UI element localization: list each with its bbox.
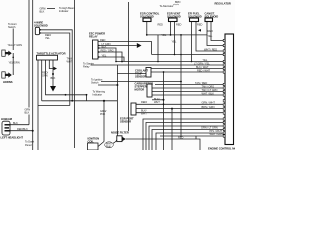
wire nest5 — [156, 133, 225, 150]
junction dot at 181,81.5 — [180, 81, 182, 83]
svg-text:TAN / RED: TAN / RED — [195, 81, 207, 85]
svg-text:SOLENOID: SOLENOID — [188, 15, 202, 19]
wire vert 117 — [116, 65, 118, 136]
svg-text:SOLENOID: SOLENOID — [34, 24, 48, 28]
arrow wire right relay row — [137, 43, 142, 48]
wire relay row yel — [98, 57, 124, 62]
svg-text:HI BEAM: HI BEAM — [1, 117, 13, 121]
svg-text:TAN / ORG: TAN / ORG — [202, 85, 215, 89]
junction dot at 32.7,130.7 — [32, 130, 34, 132]
svg-text:WHT / RED: WHT / RED — [204, 47, 217, 51]
svg-text:YEL/GRN: YEL/GRN — [9, 61, 20, 65]
EGR port sensor box — [131, 103, 136, 115]
wire relay row red — [98, 42, 152, 55]
junction dot at 174.5,54.5 — [174, 54, 176, 56]
svg-text:YEL: YEL — [172, 40, 177, 44]
ground arrow actuator — [50, 86, 56, 92]
svg-text:YEL: YEL — [203, 58, 208, 62]
svg-text:SENSOR: SENSOR — [120, 120, 131, 124]
junction dot at 86.5,94.8 — [86, 94, 88, 96]
wire horn switch vertical — [12, 29, 14, 51]
svg-text:WHT / GRN: WHT / GRN — [210, 132, 224, 136]
svg-text:BLK: BLK — [102, 45, 107, 49]
svg-text:YEL/LT GRN: YEL/LT GRN — [8, 43, 23, 47]
svg-text:YEL: YEL — [102, 54, 107, 58]
wire relay row redorg — [98, 52, 122, 62]
wire actuator pin2 to warning row — [41, 60, 43, 101]
junction dot at 13.2,57.3 — [12, 57, 14, 59]
svg-text:BRN / GRN: BRN / GRN — [202, 105, 215, 109]
ECM pins — [223, 39, 225, 137]
wire blkwht stepper stub — [152, 99, 164, 101]
wire row 85 — [98, 84, 117, 86]
wht pnk loop oval — [105, 142, 114, 148]
wire vert 128 — [128, 2, 130, 131]
svg-text:YEL: YEL — [208, 34, 213, 38]
svg-text:Panel: Panel — [25, 143, 32, 147]
wire stepper pin1 row — [152, 87, 225, 89]
solenoid box 1 EGR control — [143, 18, 151, 22]
svg-text:RED: RED — [178, 136, 184, 140]
wire relay row blk — [98, 48, 116, 62]
svg-text:SOLENOID: SOLENOID — [140, 15, 154, 19]
wire divider panel — [74, 0, 76, 148]
arrow connector pin4 — [54, 67, 58, 70]
svg-text:SOLENOID: SOLENOID — [205, 15, 219, 19]
wire actuator pin4 arrow — [49, 60, 53, 69]
junction dot at 163.5,99.8 — [163, 99, 165, 101]
wire solenoid3 pin a — [191, 22, 193, 62]
junction dot at 116,61.5 — [115, 61, 117, 63]
arrow small top right — [198, 29, 201, 32]
wire horn1 to horn2 — [12, 53, 14, 73]
svg-text:THROTTLE ACTUATOR: THROTTLE ACTUATOR — [37, 51, 66, 55]
4-wire solenoid connector — [35, 27, 41, 34]
svg-text:RED: RED — [208, 29, 214, 33]
svg-text:RED / ORG: RED / ORG — [101, 49, 114, 53]
noise filter — [117, 136, 126, 142]
wire nest4 — [152, 130, 225, 151]
wire noise filter out — [126, 139, 200, 150]
svg-text:LEFT HEADLIGHT: LEFT HEADLIGHT — [1, 136, 24, 140]
wire solenoid out bottom — [40, 33, 70, 106]
wire egr sensor pin1 row — [136, 103, 225, 105]
junction dot at 65.5,94.8 — [65, 94, 67, 96]
horn 2 — [2, 72, 13, 78]
svg-text:Switch: Switch — [8, 25, 16, 29]
svg-text:RELAY: RELAY — [89, 35, 98, 39]
wire starter relay row — [91, 64, 226, 66]
wire solenoid4 pin b — [211, 22, 225, 41]
wire row 34.9 — [147, 35, 207, 62]
solenoid box 4 canister — [205, 18, 213, 22]
wire RED/BLK headlight — [11, 130, 33, 132]
wire egr sensor pin3 row — [136, 112, 225, 114]
svg-text:SOLENOID: SOLENOID — [167, 15, 181, 19]
svg-text:Switch: Switch — [91, 80, 99, 84]
svg-text:COIL: COIL — [88, 140, 95, 144]
junction dot at 172,108.6 — [171, 108, 173, 110]
svg-text:BLK: BLK — [51, 76, 56, 80]
wire stepper pin3 row — [152, 94, 225, 96]
svg-text:SENSOR: SENSOR — [135, 75, 146, 79]
svg-text:Indicator: Indicator — [93, 93, 103, 97]
wire solenoid4 pin a — [207, 22, 225, 46]
svg-text:RED/: RED/ — [141, 100, 147, 104]
svg-text:BLK: BLK — [25, 111, 30, 115]
solenoid box 2 EGR vent — [169, 18, 178, 22]
junction dot at 191.5,61.5 — [191, 61, 193, 63]
wire vert 163 — [163, 72, 165, 150]
svg-text:RED: RED — [197, 22, 203, 26]
wire row 54 — [152, 54, 225, 56]
svg-text:BRN: BRN — [175, 0, 181, 4]
junction dot at 146.8,34.9 — [146, 34, 148, 36]
svg-text:Relay: Relay — [83, 65, 90, 69]
wire yel row — [116, 61, 225, 63]
junction dot at 163.5,104.3 — [163, 103, 165, 105]
svg-text:RED / WHT: RED / WHT — [197, 69, 211, 73]
wire vert 169 — [171, 109, 173, 150]
wire vert 180 — [180, 35, 182, 137]
svg-text:BLK: BLK — [40, 10, 45, 14]
wire egr sensor pin2 row — [136, 108, 225, 110]
svg-text:WHT: WHT — [141, 112, 147, 116]
junction dot at 158,61.5 — [157, 61, 159, 63]
svg-text:TAN / LT GRN: TAN / LT GRN — [202, 88, 218, 92]
wire actuator pin3 — [46, 60, 87, 95]
junction dot at 181,34.9 — [180, 34, 182, 36]
junction dot at 104,100.8 — [103, 100, 105, 102]
wire actuator pin5 ground — [52, 60, 54, 86]
svg-text:ENGINE CONTROL MOD: ENGINE CONTROL MOD — [208, 147, 235, 150]
junction dot at 170.5,34.9 — [170, 34, 172, 36]
svg-text:MOTOR: MOTOR — [135, 87, 145, 91]
svg-text:ORN: ORN — [42, 74, 48, 78]
wire coolant pin2 row — [151, 71, 225, 73]
wire nest1 — [143, 119, 225, 150]
svg-text:WHT: WHT — [154, 100, 160, 104]
wire BLK headlight — [11, 124, 30, 126]
svg-text:RED: RED — [100, 38, 106, 42]
junction dot at 163.5,72 — [163, 71, 165, 73]
wire coolant pin1 row — [151, 68, 225, 70]
carburetor stepper motor box — [147, 84, 152, 97]
wire coil drop — [103, 101, 105, 142]
svg-text:YEL: YEL — [45, 36, 50, 40]
wire solenoid out top — [40, 30, 73, 101]
svg-text:LT GRN / YEL: LT GRN / YEL — [194, 62, 210, 66]
ECM connector box — [223, 34, 233, 145]
wire nest2 — [146, 123, 225, 151]
svg-text:RED: RED — [176, 22, 182, 26]
wire ignition switch row — [101, 81, 181, 83]
ignition coil box — [88, 142, 105, 151]
solenoid box 3 EFI fuel — [190, 18, 199, 22]
wire nest3 — [149, 126, 225, 150]
svg-text:RED: RED — [158, 23, 164, 27]
junction dot at 181,54.5 — [180, 54, 182, 56]
svg-text:RED/BLK: RED/BLK — [17, 127, 28, 131]
svg-text:To Alternator: To Alternator — [160, 4, 174, 8]
wire tan red row — [155, 84, 225, 86]
wire row 73 coolant feed — [117, 73, 146, 75]
svg-text:PPL / WHT: PPL / WHT — [210, 129, 223, 133]
svg-text:WHT: WHT — [67, 60, 73, 64]
junction dot at 53,74 — [52, 73, 54, 75]
junction dot at 117.4,85 — [116, 84, 118, 86]
svg-text:WHT / BLK: WHT / BLK — [202, 92, 215, 96]
wire to dash panel long vertical — [32, 0, 34, 150]
wire actuator pin1 to row103 — [38, 60, 70, 150]
svg-text:YEL: YEL — [162, 33, 167, 37]
wire stepper pin2 row — [152, 91, 225, 93]
EEC power relay box — [93, 40, 100, 59]
wire solenoid1 pin a — [146, 22, 148, 35]
svg-text:Indicator: Indicator — [59, 9, 69, 13]
svg-text:PNK: PNK — [106, 144, 112, 148]
svg-text:To Dash: To Dash — [25, 140, 35, 144]
wire vert 86 — [86, 95, 88, 101]
svg-text:HORNS: HORNS — [3, 80, 13, 84]
wire warning indicator row — [42, 100, 118, 102]
wire solenoid2 pin b row54 — [174, 22, 176, 55]
wire high beam indicator dash — [47, 8, 55, 10]
svg-text:BLK: BLK — [13, 121, 18, 125]
svg-text:REGULATOR: REGULATOR — [215, 2, 231, 6]
junction dot at 122,61.5 — [121, 61, 123, 63]
headlight connector — [2, 121, 11, 135]
svg-text:BLK / WHT: BLK / WHT — [196, 65, 209, 69]
wire solenoid2 pin a to x180 — [170, 22, 172, 35]
throttle actuator box — [37, 55, 58, 60]
svg-text:NOISE FILTER: NOISE FILTER — [111, 130, 129, 134]
junction dot at 71.9,100.8 — [71, 100, 73, 102]
wire headlight dimmer long vertical — [28, 0, 30, 125]
wire relay row ltgrn arrow — [98, 45, 137, 47]
horn 1 — [2, 50, 12, 56]
coolant temp sensor box — [146, 68, 151, 78]
svg-text:GRN / WHT: GRN / WHT — [202, 101, 216, 105]
wire solenoid3 pin b whtred row — [196, 22, 225, 52]
svg-text:PNK: PNK — [100, 112, 106, 116]
wire row 136 — [160, 136, 225, 139]
